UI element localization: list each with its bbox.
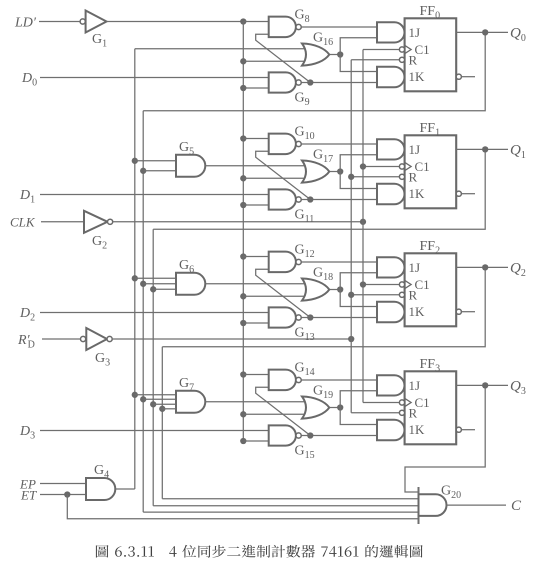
R riser xyxy=(350,60,352,413)
flip-flop FF3 xyxy=(405,371,457,444)
wire Q2 to G7 xyxy=(162,408,176,410)
wire LOAD to G12 xyxy=(243,256,268,258)
wire LOAD to G18 xyxy=(243,295,308,297)
Q3 feedback wire xyxy=(405,385,485,492)
wire LOAD to G11 xyxy=(243,204,268,206)
OR gate G16 xyxy=(302,44,329,66)
node T tap G5 xyxy=(132,158,138,164)
svg-text:LD′: LD′ xyxy=(14,16,37,31)
wire R stub FF0 xyxy=(351,59,399,61)
NAND gate G9 xyxy=(269,72,296,92)
flip-flop FF1 xyxy=(405,135,457,208)
wire LOAD to G17 xyxy=(243,177,308,179)
CLK riser xyxy=(362,50,364,403)
wire ET to G4 xyxy=(40,494,87,496)
NAND gate G15 xyxy=(269,425,296,445)
wire cross-coupling diagonal G13 to G12 xyxy=(256,269,311,317)
wire R stub FF1 xyxy=(351,176,399,178)
node Q2 tap G7 xyxy=(159,406,165,412)
reset bubble FF0 xyxy=(399,57,404,62)
wire D3 to G15 xyxy=(40,430,269,432)
reset bubble FF1 xyxy=(399,174,404,179)
wire G17 output xyxy=(329,171,340,173)
K input AND gate FF2 xyxy=(377,302,404,323)
wire G1 output to LOAD bus xyxy=(107,21,244,23)
wire OR junction to J-AND xyxy=(340,38,377,55)
node LOAD tap G11 xyxy=(240,202,246,208)
wire D2 to G13 xyxy=(40,312,269,314)
wire LOAD to G8 xyxy=(243,21,268,23)
inverter G1 xyxy=(80,19,85,24)
Q2 feedback bus xyxy=(162,267,485,346)
J input AND gate FF0 xyxy=(377,22,405,42)
wire CLK stub FF0 xyxy=(363,49,399,51)
node R tap FF2 xyxy=(348,292,354,298)
wire OR junction to J-AND xyxy=(340,391,377,408)
wire OR junction to J-AND xyxy=(340,155,377,172)
node LOAD tap G17 xyxy=(240,175,246,181)
wire Q0 to G6 xyxy=(143,283,176,285)
wire CLK stub FF3 xyxy=(363,402,399,404)
node Q2 junction xyxy=(482,264,488,270)
OR gate G19 xyxy=(302,397,329,419)
wire G8 output to J-AND xyxy=(301,26,377,28)
wire cross-coupling diagonal G9 to G8 xyxy=(256,34,311,82)
node R riser junction xyxy=(348,336,354,342)
wire Q3' stub xyxy=(461,429,475,431)
svg-text:1K: 1K xyxy=(409,69,426,84)
svg-text:1J: 1J xyxy=(409,142,421,157)
clock bubble FF2 xyxy=(399,282,404,287)
clock bubble FF3 xyxy=(399,400,404,405)
K input AND gate FF0 xyxy=(377,67,405,88)
svg-text:1K: 1K xyxy=(409,422,426,437)
K input AND gate FF1 xyxy=(377,184,405,205)
wire G3 output to R riser xyxy=(112,338,351,340)
node ET junction xyxy=(64,491,70,497)
svg-text:1J: 1J xyxy=(409,378,421,393)
node LOAD tap G18 xyxy=(240,293,246,299)
NAND gate G12 xyxy=(269,252,296,273)
wire G13 output xyxy=(301,317,377,319)
wire Q1 output xyxy=(456,148,508,150)
wire Q0 to G20 xyxy=(143,511,418,513)
svg-text:1K: 1K xyxy=(409,186,426,201)
wire LOAD to G13 xyxy=(243,322,268,324)
wire Q1' stub xyxy=(461,193,475,195)
wire OR junction to K-AND xyxy=(340,172,377,189)
wire Q2' stub xyxy=(461,311,475,313)
NAND gate G10 xyxy=(269,134,296,155)
AND gate G4 xyxy=(86,478,115,500)
svg-text:R: R xyxy=(409,406,418,421)
inverter G3 xyxy=(81,336,86,341)
node LOAD tap G15 xyxy=(240,438,246,444)
node Q0 tap G7 xyxy=(140,396,146,402)
node LOAD tap G12 xyxy=(240,253,246,259)
wire CLK stub FF1 xyxy=(363,166,399,168)
node R tap FF1 xyxy=(348,174,354,180)
node G15 output junction xyxy=(307,432,313,438)
wire OR junction to K-AND xyxy=(340,408,377,425)
node G11 output junction xyxy=(307,196,313,202)
wire D1 to G11 xyxy=(40,194,269,196)
J input AND gate FF3 xyxy=(377,375,405,395)
wire CLK stub FF2 xyxy=(363,284,399,286)
wire OR junction to K-AND xyxy=(340,55,377,72)
wire OR junction to K-AND xyxy=(340,290,377,307)
clock bubble FF1 xyxy=(399,164,404,169)
AND gate G20 xyxy=(419,494,447,516)
NAND gate G8 xyxy=(269,17,296,37)
wire LOAD to G9 xyxy=(243,87,268,89)
wire G11 output xyxy=(301,199,377,201)
wire G10 output to J-AND xyxy=(301,143,377,145)
wire T to G7 xyxy=(135,394,176,396)
node LOAD tap G13 xyxy=(240,320,246,326)
wire LOAD to G16 xyxy=(243,60,308,62)
Q0 feedback bus xyxy=(143,32,485,110)
wire G2 output to CLK riser xyxy=(113,221,363,223)
node Q0 tap G6 xyxy=(140,281,146,287)
svg-text:1J: 1J xyxy=(409,260,421,275)
K input AND gate FF3 xyxy=(377,420,404,441)
inverter G2 xyxy=(84,211,108,233)
wire Q0 output xyxy=(456,31,508,33)
wire Q2 output xyxy=(456,266,508,268)
wire CLK to G2 xyxy=(41,221,84,223)
OR gate G18 xyxy=(302,279,329,301)
wire LOAD to G10 xyxy=(243,138,268,140)
wire G12 output to J-AND xyxy=(301,261,377,263)
node G19 output junction xyxy=(337,404,343,410)
node Q0 junction xyxy=(482,29,488,35)
wire G19 output xyxy=(329,407,340,409)
wire ET to G20 xyxy=(67,495,418,519)
wire G4 output to T bus xyxy=(115,488,135,490)
wire R stub FF2 xyxy=(351,294,399,296)
wire LD' to G1 xyxy=(39,21,80,23)
svg-text:1J: 1J xyxy=(409,25,421,40)
node Q3 junction xyxy=(482,382,488,388)
node G9 output junction xyxy=(307,79,313,85)
wire D0 to G9 xyxy=(40,77,269,79)
complement output bubble FF1 xyxy=(456,191,461,196)
flip-flop FF0 xyxy=(405,18,457,91)
wire G14 output to J-AND xyxy=(301,379,377,381)
wire T to G5 xyxy=(135,160,176,162)
node Q1 tap G6 xyxy=(150,286,156,292)
node LOAD tap G16 xyxy=(240,58,246,64)
wire Q1 to G20 xyxy=(153,505,418,507)
wire OR junction to J-AND xyxy=(340,273,377,290)
clock bubble FF0 xyxy=(399,47,404,52)
node CLK tap FF2 xyxy=(360,281,366,287)
wire R stub FF3 xyxy=(351,412,399,414)
wire LOAD to G14 xyxy=(243,374,268,376)
node CLK riser junction xyxy=(360,219,366,225)
complement output bubble FF3 xyxy=(456,427,461,432)
svg-text:CLK: CLK xyxy=(10,215,36,230)
complement output bubble FF0 xyxy=(456,74,461,79)
node G13 output junction xyxy=(307,314,313,320)
node G18 output junction xyxy=(337,286,343,292)
wire Q1 to G6 xyxy=(153,288,176,290)
caption xyxy=(96,545,423,558)
wire G15 output xyxy=(301,435,377,437)
svg-text:1K: 1K xyxy=(409,304,426,319)
wire RD' to G3 xyxy=(42,338,81,340)
node Q0 tap G5 xyxy=(140,168,146,174)
LOAD bus vertical xyxy=(242,22,244,442)
node LOAD tap G10 xyxy=(240,135,246,141)
wire Q0 to G7 xyxy=(143,398,176,400)
svg-text:R: R xyxy=(409,288,418,303)
J input AND gate FF2 xyxy=(377,257,405,277)
svg-text:R: R xyxy=(409,53,418,68)
complement output bubble FF2 xyxy=(456,309,461,314)
node T tap G6 xyxy=(132,275,138,281)
wire EP to G4 xyxy=(40,483,87,485)
wire G5 output to G17 xyxy=(205,165,307,167)
AND gate G20 input bar xyxy=(418,487,420,524)
wire carry output xyxy=(447,504,507,506)
svg-text:R: R xyxy=(409,170,418,185)
wire cross-coupling diagonal G11 to G10 xyxy=(256,151,311,199)
node T tap G7 xyxy=(132,392,138,398)
wire G16 output xyxy=(329,54,340,56)
reset bubble FF2 xyxy=(399,292,404,297)
J input AND gate FF1 xyxy=(377,139,404,159)
OR gate G17 xyxy=(302,161,329,183)
wire Q1 to G7 xyxy=(153,403,176,405)
wire T to G6 xyxy=(135,277,176,279)
NAND gate G11 xyxy=(269,189,296,209)
node LOAD tap G14 xyxy=(240,371,246,377)
node G17 output junction xyxy=(337,168,343,174)
node LOAD tap G19 xyxy=(240,411,246,417)
wire Q0' stub xyxy=(461,76,475,78)
NAND gate G13 xyxy=(269,307,296,327)
wire G18 output xyxy=(329,289,340,291)
reset bubble FF3 xyxy=(399,410,404,415)
AND gate G7 xyxy=(176,391,205,413)
node Q1 tap G7 xyxy=(150,401,156,407)
wire LOAD to G19 xyxy=(243,413,308,415)
wire Q3 output xyxy=(456,384,508,386)
wire G9 output xyxy=(301,82,377,84)
Q1 feedback bus xyxy=(153,149,485,229)
wire G6 output to G18 xyxy=(205,283,307,285)
wire Q0 to G5 xyxy=(143,170,176,172)
T bus (EP*ET) xyxy=(135,48,308,50)
node LOAD tap G9 xyxy=(240,85,246,91)
NAND gate G14 xyxy=(269,370,296,391)
wire Q2 to G20 xyxy=(162,498,418,500)
node CLK tap FF1 xyxy=(360,163,366,169)
svg-text:C: C xyxy=(511,498,522,514)
wire G7 output to G19 xyxy=(205,401,307,403)
flip-flop FF2 xyxy=(405,253,457,326)
node LOAD top xyxy=(240,18,246,24)
wire LOAD to G15 xyxy=(243,440,268,442)
node G16 output junction xyxy=(337,51,343,57)
node Q1 junction xyxy=(482,146,488,152)
svg-text:ET: ET xyxy=(20,488,37,503)
wire cross-coupling diagonal G15 to G14 xyxy=(256,387,311,435)
AND gate G6 xyxy=(176,273,205,295)
